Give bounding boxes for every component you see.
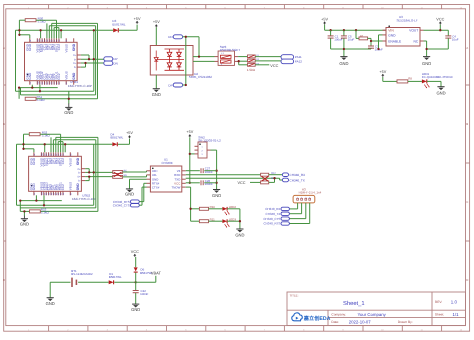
svg-text:B12: B12: [37, 39, 39, 42]
svg-text:CH340_RX: CH340_RX: [290, 174, 306, 177]
resistor R8: [397, 80, 408, 83]
svg-text:+5V: +5V: [134, 17, 141, 21]
wires RTS CTS: [139, 183, 146, 205]
svg-text:ENABLE: ENABLE: [388, 40, 401, 44]
svg-text:C: C: [466, 201, 468, 204]
title block: [287, 292, 466, 326]
ground GND (LEDs): [236, 228, 243, 230]
svg-text:C: C: [3, 201, 5, 204]
svg-text:9: 9: [342, 7, 343, 9]
svg-text:SE5218ALG-LF: SE5218ALG-LF: [397, 19, 418, 22]
svg-text:GND: GND: [152, 178, 158, 181]
svg-text:100nF: 100nF: [205, 171, 213, 174]
IC U1 CH340E: [150, 166, 181, 192]
svg-text:+5V: +5V: [186, 130, 193, 134]
wire R11 to LED3: [209, 220, 223, 222]
svg-text:GND: GND: [125, 192, 134, 197]
svg-text:A1: A1: [29, 40, 31, 42]
svg-text:GND: GND: [30, 183, 33, 190]
wires resistors to ports: [255, 57, 281, 65]
wire VOUT rail: [424, 25, 449, 31]
wire R10 to LED2: [209, 208, 223, 210]
svg-text:DN: DN: [168, 36, 172, 39]
svg-text:B6: B6: [60, 154, 62, 156]
wire VBUS bus (USB2): [17, 144, 113, 205]
svg-text:R7: R7: [360, 35, 363, 38]
USB1 bottom pins: [30, 81, 74, 85]
wire D merge (USB2): [85, 144, 113, 205]
diode D6: [134, 267, 138, 271]
svg-text:12: 12: [460, 7, 463, 9]
svg-text:CH340_CTS: CH340_CTS: [113, 204, 130, 207]
wires R5/R6 to U1: [123, 171, 147, 177]
svg-text:A1: A1: [29, 82, 31, 84]
svg-text:B: B: [466, 123, 468, 126]
svg-text:CC2: CC2: [62, 184, 65, 190]
svg-text:REV:: REV:: [435, 300, 442, 304]
svg-text:GND: GND: [46, 302, 55, 307]
svg-text:CH340_TX: CH340_TX: [266, 213, 281, 216]
wire RXD row: [186, 174, 261, 176]
svg-text:A5: A5: [48, 193, 50, 195]
svg-text:CH340_CTS: CH340_CTS: [263, 217, 280, 220]
switch SW2: [198, 142, 207, 158]
svg-text:嘉立创EDA: 嘉立创EDA: [303, 316, 330, 322]
connector USB2 body: [29, 156, 82, 191]
svg-text:B8: B8: [47, 82, 49, 84]
svg-text:100nF: 100nF: [140, 293, 148, 296]
wire TNOW to LEDs: [186, 187, 200, 221]
svg-text:100uF: 100uF: [334, 38, 342, 41]
SW2 pins: [195, 146, 211, 154]
ground GND (U3 out): [423, 56, 430, 58]
ground GND (USB1): [68, 103, 70, 107]
svg-text:4: 4: [309, 197, 310, 199]
svg-text:+5V: +5V: [321, 17, 328, 21]
svg-text:D+: D+: [73, 54, 76, 57]
svg-text:B9: B9: [42, 40, 44, 42]
wire V3 row: [186, 170, 200, 172]
svg-text:VCC: VCC: [238, 181, 246, 185]
svg-text:CH340_RX: CH340_RX: [265, 208, 280, 211]
svg-text:RTS#: RTS#: [152, 182, 159, 185]
svg-text:10uF: 10uF: [348, 38, 355, 41]
LED LED2: [222, 207, 227, 211]
svg-text:D+: D+: [78, 168, 81, 171]
svg-text:UD-: UD-: [152, 174, 157, 177]
svg-text:D: D: [3, 279, 5, 282]
svg-text:TITLE:: TITLE:: [290, 294, 299, 297]
wire cap ground rail: [331, 49, 371, 56]
resistor R50: [25, 19, 36, 22]
net flag CH340_TX: [282, 178, 288, 182]
svg-text:11: 11: [420, 329, 422, 331]
svg-text:BS-12-B2AA002: BS-12-B2AA002: [71, 273, 92, 276]
net flag CH340_RX: [282, 173, 288, 177]
svg-text:8: 8: [303, 7, 304, 9]
connector USB1 body: [25, 42, 78, 80]
svg-text:1: 1: [28, 7, 29, 9]
svg-text:A6: A6: [53, 154, 55, 156]
resistor R5 (pair): [113, 171, 123, 174]
svg-text:1: 1: [202, 146, 203, 148]
svg-text:B8: B8: [51, 193, 53, 195]
wire R8 to LED1: [408, 80, 422, 82]
wires D2 to SW3: [183, 37, 215, 85]
svg-text:GND: GND: [339, 62, 348, 67]
svg-text:A8: A8: [63, 193, 65, 195]
svg-text:D-: D-: [74, 66, 76, 69]
svg-text:7: 7: [264, 329, 265, 331]
resistor R12: [261, 173, 269, 176]
svg-text:A5: A5: [44, 82, 46, 84]
wire D4 to +5V: [118, 139, 130, 145]
USB2 bottom pins: [34, 191, 78, 195]
svg-text:2: 2: [67, 329, 68, 331]
wire VCC to R13: [250, 181, 261, 183]
svg-text:GND: GND: [20, 222, 29, 227]
svg-text:A5: A5: [48, 154, 50, 156]
svg-text:CH340_RTS: CH340_RTS: [263, 222, 280, 225]
ground GND (USB2): [23, 216, 25, 219]
svg-text:Your Company: Your Company: [358, 313, 386, 318]
svg-text:B12: B12: [37, 81, 39, 84]
wire +5V rail: [325, 25, 386, 31]
svg-text:B9: B9: [46, 154, 48, 156]
svg-text:5.1kΩ: 5.1kΩ: [41, 211, 49, 214]
svg-text:GND: GND: [72, 73, 75, 80]
svg-text:8: 8: [303, 329, 304, 331]
svg-text:10: 10: [381, 7, 384, 9]
ground GND (U1): [126, 188, 133, 190]
svg-text:A1: A1: [34, 154, 36, 156]
svg-text:FC-QA1608BK-4T0H10: FC-QA1608BK-4T0H10: [422, 76, 453, 79]
svg-text:A8: A8: [59, 82, 61, 84]
svg-text:D-: D-: [78, 180, 80, 183]
svg-text:VCC: VCC: [174, 182, 180, 185]
svg-text:Sheet:: Sheet:: [435, 313, 444, 317]
resistor R13: [261, 181, 269, 184]
svg-text:GND: GND: [26, 44, 29, 51]
svg-text:GND: GND: [235, 233, 244, 238]
svg-text:LED1: LED1: [422, 73, 429, 76]
svg-text:6: 6: [224, 329, 225, 331]
svg-text:A7: A7: [58, 154, 60, 156]
net label VBAT wire: [136, 276, 156, 283]
svg-text:B5: B5: [66, 40, 68, 42]
R50 wires: [19, 20, 56, 38]
svg-text:V3: V3: [177, 170, 181, 173]
wire bottom buses: [16, 85, 98, 104]
svg-text:H3: H3: [302, 188, 306, 191]
svg-text:1/1: 1/1: [453, 313, 459, 318]
svg-text:5: 5: [185, 329, 186, 331]
svg-text:A8: A8: [59, 40, 61, 42]
svg-text:B12: B12: [41, 153, 43, 156]
wires H3 pins: [289, 203, 309, 224]
svg-text:CC2: CC2: [58, 73, 61, 79]
svg-text:SK-12D02-01-L2: SK-12D02-01-L2: [198, 139, 221, 142]
wire +5V to R8: [383, 77, 397, 81]
wire SW2 out: [211, 150, 217, 189]
capacitor C7: [370, 41, 372, 46]
svg-text:R8: R8: [408, 77, 412, 80]
svg-text:GND: GND: [30, 158, 33, 165]
svg-text:VBAT: VBAT: [151, 271, 161, 275]
resistor R53: [30, 210, 41, 213]
svg-text:VCC: VCC: [131, 250, 139, 254]
wire BT1 to D1: [78, 281, 109, 283]
wire NC to GND: [424, 41, 449, 56]
capacitor C5: [343, 30, 345, 36]
ground GND (C22): [132, 303, 139, 305]
svg-text:D: D: [466, 279, 468, 282]
svg-text:Company:: Company:: [331, 313, 346, 317]
svg-text:B: B: [3, 123, 5, 126]
svg-text:2: 2: [202, 150, 203, 152]
svg-text:1.0: 1.0: [451, 300, 457, 305]
ESD diode array D2: [150, 46, 193, 76]
svg-text:B5: B5: [70, 154, 72, 156]
svg-text:CC2: CC2: [58, 44, 61, 50]
svg-text:CTS#: CTS#: [152, 186, 160, 189]
svg-text:VCC: VCC: [270, 64, 278, 68]
svg-text:12: 12: [460, 329, 463, 331]
svg-text:B7: B7: [51, 40, 53, 42]
resistor R3: [248, 63, 256, 66]
svg-text:A7: A7: [54, 40, 56, 42]
wires SW3 to resistors: [238, 57, 247, 65]
wire pin drops: [47, 23, 59, 38]
resistor R2: [248, 59, 256, 62]
capacitor C22: [135, 282, 137, 290]
svg-text:3: 3: [221, 63, 222, 65]
svg-text:VBUS: VBUS: [69, 182, 72, 191]
svg-text:B5817WL: B5817WL: [112, 23, 125, 26]
svg-text:C1: C1: [335, 35, 339, 38]
svg-text:9: 9: [342, 329, 343, 331]
SW3 pins: [215, 57, 239, 62]
svg-text:TNOW: TNOW: [171, 186, 180, 189]
svg-text:2022-10-07: 2022-10-07: [349, 320, 371, 325]
crossover wires: [262, 176, 269, 181]
svg-text:B9: B9: [46, 193, 48, 195]
svg-text:CH340_RTS: CH340_RTS: [113, 200, 130, 203]
wire D3 to +5V: [119, 25, 137, 31]
U1 pin names: [152, 170, 181, 189]
svg-text:3: 3: [107, 7, 108, 9]
svg-text:100nF: 100nF: [205, 183, 213, 186]
svg-text:D-: D-: [74, 58, 76, 61]
diode D3: [113, 28, 118, 32]
svg-text:A4: A4: [43, 154, 45, 156]
svg-text:B12: B12: [41, 192, 43, 195]
svg-text:D2: D2: [194, 73, 198, 76]
diode D1: [109, 280, 114, 284]
svg-text:A4: A4: [43, 193, 45, 195]
svg-text:VBUS: VBUS: [65, 44, 68, 53]
svg-text:CH340_TX: CH340_TX: [290, 179, 305, 182]
wires +5V to SW2: [190, 137, 195, 182]
wire D6 to junction: [135, 273, 137, 283]
wire VCC row: [186, 182, 200, 184]
svg-text:3: 3: [107, 329, 108, 331]
svg-text:B7: B7: [55, 193, 57, 195]
svg-text:U1: U1: [164, 158, 168, 161]
wire U3 GND pin: [379, 35, 383, 49]
net flag DP: [104, 57, 113, 61]
wire top loop 2 (USB2): [20, 140, 96, 208]
svg-text:B8: B8: [51, 154, 53, 156]
switch SW3: [218, 51, 234, 65]
svg-text:10: 10: [381, 329, 384, 331]
wire LED1 to GND: [427, 81, 441, 86]
svg-text:1.5kΩ: 1.5kΩ: [247, 69, 255, 72]
svg-text:GND: GND: [131, 308, 140, 313]
wire battery row: [50, 281, 70, 283]
logo JLC EDA: [292, 313, 302, 321]
svg-text:GND: GND: [64, 111, 73, 116]
svg-text:Date:: Date:: [331, 320, 339, 324]
resistor R7: [355, 30, 357, 38]
svg-text:DP: DP: [168, 84, 172, 87]
diode D4: [112, 142, 117, 146]
svg-text:B7: B7: [51, 82, 53, 84]
resistor R51: [25, 97, 36, 100]
svg-text:2: 2: [67, 7, 68, 9]
svg-text:CC2: CC2: [62, 158, 65, 164]
svg-text:D-: D-: [78, 172, 80, 175]
U3 pins: [383, 30, 424, 41]
LED LED1: [422, 79, 427, 83]
svg-text:TXD: TXD: [175, 178, 181, 181]
svg-text:PA12: PA12: [295, 60, 302, 63]
svg-text:C4: C4: [452, 35, 456, 38]
svg-text:A4: A4: [39, 40, 41, 42]
ground GND (U3 caps): [340, 56, 347, 58]
svg-text:GND: GND: [152, 93, 161, 98]
svg-text:GND: GND: [422, 62, 431, 67]
svg-text:GND: GND: [388, 34, 395, 38]
wire D+ D- merge: [81, 30, 104, 91]
wire top loop: [52, 23, 98, 98]
USB2 right pins D+/D-: [78, 168, 86, 182]
svg-text:3: 3: [305, 197, 306, 199]
svg-text:B8: B8: [47, 40, 49, 42]
net flag DN: [104, 61, 113, 65]
svg-text:GND: GND: [26, 73, 29, 80]
svg-text:C22: C22: [141, 290, 146, 293]
battery BT1: [71, 278, 73, 287]
svg-text:GND: GND: [436, 91, 445, 96]
svg-text:BT1: BT1: [71, 270, 76, 273]
svg-text:SR05_CS211962: SR05_CS211962: [189, 76, 212, 79]
wire top loop 2: [21, 26, 96, 95]
svg-text:B6: B6: [60, 193, 62, 195]
svg-text:A6: A6: [49, 40, 51, 42]
U1 pins: [147, 171, 186, 187]
ground GND (LED1): [437, 86, 444, 88]
LED LED3: [222, 219, 227, 223]
svg-text:1 2: 1 2: [221, 53, 224, 55]
ground GND (D2): [155, 75, 157, 89]
svg-text:4: 4: [146, 7, 147, 9]
svg-text:U3: U3: [399, 16, 403, 19]
resistor R52: [29, 133, 40, 136]
svg-text:B6: B6: [56, 82, 58, 84]
wire top loop (USB2): [56, 137, 98, 211]
svg-text:2: 2: [301, 197, 302, 199]
svg-text:6: 6: [224, 7, 225, 9]
R52 wires: [24, 134, 61, 152]
ground GND (C27 C28): [213, 189, 220, 191]
svg-text:GND: GND: [76, 158, 79, 165]
svg-text:16di-TYPE-C-16P: 16di-TYPE-C-16P: [72, 198, 96, 201]
svg-text:16di-TYPE-C-16P: 16di-TYPE-C-16P: [68, 84, 92, 87]
svg-text:3: 3: [202, 154, 203, 156]
svg-text:A6: A6: [53, 193, 55, 195]
svg-text:D+: D+: [78, 176, 81, 179]
voltage regulator U3: [386, 28, 420, 47]
svg-text:NC: NC: [414, 40, 419, 44]
svg-text:A: A: [466, 47, 468, 50]
wire bottom buses (USB2): [17, 195, 98, 216]
svg-text:10uF: 10uF: [452, 38, 459, 41]
wire TXD row: [186, 178, 283, 180]
resistor R10: [199, 207, 208, 210]
svg-text:1: 1: [28, 329, 29, 331]
svg-text:Drawn By:: Drawn By:: [398, 320, 413, 324]
svg-text:5.1kΩ: 5.1kΩ: [37, 99, 45, 102]
svg-text:A: A: [3, 47, 5, 50]
svg-text:4: 4: [146, 329, 147, 331]
svg-text:CH340E: CH340E: [162, 161, 173, 164]
wire U1 GND pin to ground: [130, 179, 147, 189]
svg-text:D3: D3: [112, 20, 116, 23]
header H3: [293, 195, 315, 203]
svg-text:RXD: RXD: [174, 174, 180, 177]
svg-text:UD+: UD+: [152, 170, 158, 173]
resistor R11: [199, 220, 208, 223]
svg-text:A7: A7: [58, 193, 60, 195]
svg-text:B6: B6: [56, 40, 58, 42]
USB1 right pins D+/D-: [73, 54, 81, 69]
svg-text:11: 11: [420, 7, 422, 9]
svg-text:DSIC02LSGET: DSIC02LSGET: [220, 49, 240, 52]
svg-text:A1: A1: [34, 193, 36, 195]
wire VCC down: [135, 257, 137, 267]
svg-text:DP: DP: [114, 58, 118, 61]
svg-text:C5: C5: [348, 35, 352, 38]
ground GND (battery left): [49, 282, 51, 297]
wire pin drops (USB2): [51, 137, 63, 152]
USB2 top pins: [34, 152, 78, 156]
svg-text:D4: D4: [111, 133, 115, 136]
svg-text:USB2: USB2: [82, 194, 90, 197]
capacitor C28: [200, 180, 202, 185]
svg-text:HDR-F-2.54_1x4: HDR-F-2.54_1x4: [299, 191, 322, 194]
svg-text:Sheet_1: Sheet_1: [343, 301, 365, 307]
svg-text:B5817WL: B5817WL: [109, 276, 122, 279]
svg-text:A4: A4: [39, 82, 41, 84]
resistor R6 (pair): [113, 175, 123, 178]
svg-text:VBUS: VBUS: [65, 71, 68, 80]
svg-text:VBUS: VBUS: [69, 158, 72, 167]
svg-text:GND: GND: [212, 194, 221, 199]
wires to RX TX flags: [269, 175, 283, 183]
wire LED3 to GND: [227, 221, 240, 229]
svg-text:B7: B7: [55, 154, 57, 156]
